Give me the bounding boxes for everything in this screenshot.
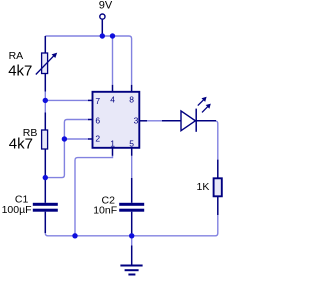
- capacitor C2 plates: [119, 203, 144, 206]
- junction node RA/RB/pin7: [43, 98, 48, 103]
- pin 2 stub: [88, 138, 93, 140]
- capacitor C2 bottom lead: [131, 212, 133, 235]
- wire pin 4 drop from rail: [112, 36, 114, 85]
- LED anode lead: [162, 120, 181, 122]
- svg-text:10nF: 10nF: [93, 205, 117, 217]
- svg-text:100µF: 100µF: [2, 204, 32, 216]
- LED cathode lead: [196, 120, 216, 122]
- wire bottom ground rail left section: [45, 231, 131, 236]
- wire RA/RB column between junctions: [44, 100, 46, 112]
- pin 4 stub: [112, 85, 114, 92]
- wire pin 1 to ground rail: [75, 156, 113, 236]
- junction node rail/pin1: [72, 233, 77, 238]
- IC 555 timer body: [93, 92, 140, 148]
- LED cathode bar: [195, 109, 197, 132]
- svg-text:8: 8: [129, 94, 134, 104]
- LED emission arrow 1: [198, 100, 204, 106]
- pin 6 stub: [88, 119, 93, 121]
- resistor 1K top lead: [217, 160, 219, 179]
- pin 7 stub: [88, 99, 93, 101]
- svg-text:3: 3: [134, 115, 139, 125]
- resistor RB bottom lead: [44, 149, 46, 178]
- svg-text:7: 7: [95, 96, 100, 106]
- capacitor C1 top lead: [44, 178, 46, 203]
- wire pin 7 from RA/RB junction: [45, 99, 88, 101]
- resistor RA bottom lead: [44, 74, 46, 92]
- wire pin 5 to C2: [131, 156, 133, 178]
- svg-text:RA: RA: [9, 50, 24, 62]
- pin 5 stub: [131, 148, 133, 156]
- resistor RA wiper arrow: [36, 56, 54, 75]
- svg-text:4: 4: [110, 94, 115, 104]
- svg-text:9V: 9V: [99, 0, 113, 11]
- svg-text:1K: 1K: [197, 181, 210, 193]
- svg-text:5: 5: [129, 139, 134, 149]
- wire pin 3 to LED: [147, 120, 162, 122]
- resistor RB body: [42, 130, 48, 149]
- LED emission arrow 2: [202, 107, 208, 113]
- wire ground stem upper: [131, 236, 133, 246]
- wire top rail from RA to pin 8 corner: [45, 36, 131, 85]
- capacitor C2 top lead: [131, 178, 133, 203]
- svg-text:6: 6: [95, 115, 100, 125]
- resistor RA top lead: [44, 36, 46, 53]
- wire LED cathode corner down to 1K: [216, 121, 218, 160]
- junction node rail/pin4: [110, 33, 115, 38]
- svg-text:4k7: 4k7: [8, 62, 32, 79]
- junction node rail/9V: [100, 33, 105, 38]
- junction node pin6/pin2: [62, 136, 67, 141]
- wire pin 2 to pin6/2 junction: [64, 138, 88, 140]
- capacitor C1 bottom lead: [44, 212, 46, 233]
- pin 8 stub: [131, 85, 133, 92]
- wire 1K bottom to ground rail corner: [132, 215, 218, 236]
- wire pin 6 to node at RB bottom: [45, 120, 88, 178]
- svg-text:4k7: 4k7: [9, 135, 33, 152]
- resistor 1K bottom lead: [217, 196, 219, 215]
- 9V terminal circle: [100, 14, 105, 19]
- resistor 1K body: [214, 178, 222, 196]
- LED triangle: [181, 111, 195, 131]
- pin 1 stub: [112, 148, 114, 156]
- junction node RB/C1: [43, 175, 48, 180]
- junction node rail/ground: [129, 233, 134, 238]
- pin 3 stub: [139, 120, 147, 122]
- ground symbol bars: [120, 265, 142, 267]
- capacitor C1 plates: [33, 203, 58, 206]
- 9V lead to rail: [101, 20, 103, 36]
- svg-text:2: 2: [95, 133, 100, 143]
- svg-text:1: 1: [110, 139, 115, 149]
- resistor RA body: [42, 53, 48, 74]
- ground symbol stem: [131, 246, 133, 265]
